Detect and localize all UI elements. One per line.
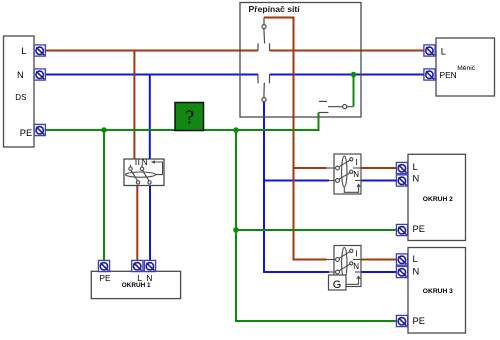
- changeover PE lever and pivot: [328, 105, 354, 109]
- svg-text:?: ?: [185, 107, 194, 129]
- okruh2 breaker pole N: [329, 170, 361, 182]
- junction dot green on N wire (PEN bond): [351, 72, 357, 78]
- terminal okruh3 L: [396, 254, 407, 265]
- box okruh2 breaker: [334, 154, 361, 194]
- wire green trunk down to okruh2/okruh3 PE: [236, 130, 397, 321]
- wire brown: okruh2 switch to L terminal: [361, 167, 397, 169]
- svg-text:N: N: [413, 267, 420, 277]
- okruh3 breaker actuator ellipse: [342, 248, 347, 279]
- wire green: PEN bond from N wire down to changeover lever: [353, 75, 355, 107]
- main switch actuator ellipse: [126, 172, 156, 177]
- okruh3 breaker G box: [329, 275, 347, 291]
- wire brown: main switch to okruh1 L terminal: [136, 186, 138, 262]
- terminal okruh2 N: [396, 175, 407, 186]
- svg-text:I: I: [355, 158, 357, 167]
- terminal okruh1 PE: [98, 260, 109, 271]
- box Menic (inverter): [436, 38, 495, 96]
- wire L brown: switch right contact to Menic L: [270, 50, 427, 52]
- box DS (source): [4, 36, 35, 147]
- terminal okruh1 L: [132, 260, 143, 271]
- svg-text:L: L: [413, 162, 418, 172]
- terminal Menic PEN: [424, 69, 435, 80]
- box Prepinac siti (network changeover switch): [240, 3, 361, 118]
- terminal okruh2 PE: [396, 224, 407, 235]
- junction dot green at okruh2 PE branch: [233, 227, 239, 233]
- switch L (top pole) contact hooks: [258, 43, 270, 50]
- junction dot green at PE line / okruh1 branch: [101, 127, 107, 133]
- terminal DS N: [34, 69, 45, 80]
- svg-text:PE: PE: [20, 128, 32, 138]
- svg-text:OKRUH 3: OKRUH 3: [423, 288, 453, 295]
- terminal okruh1 N: [144, 260, 155, 271]
- switch N (bottom pole) contact hooks: [258, 75, 270, 84]
- svg-text:PEN: PEN: [440, 70, 457, 80]
- main switch input stubs: [136, 159, 139, 165]
- okruh2 breaker pole L: [327, 158, 362, 170]
- okruh2 breaker actuator ellipse: [342, 156, 347, 187]
- svg-text:L: L: [21, 46, 26, 56]
- okruh3 breaker pole L: [327, 249, 362, 261]
- terminal Menic L: [424, 45, 435, 56]
- box okruh2: [408, 154, 466, 240]
- wire brown: okruh3 switch to L terminal: [361, 259, 397, 261]
- wire blue branch down to main switch (okruh1): [149, 75, 151, 160]
- terminal DS PE: [34, 124, 45, 135]
- terminal DS L: [34, 45, 45, 56]
- main switch trip arrow: [151, 160, 163, 174]
- svg-text:N: N: [413, 174, 420, 184]
- svg-text:PE: PE: [413, 224, 425, 234]
- box main switch okruh1: [124, 159, 164, 186]
- svg-text:N: N: [17, 70, 24, 80]
- svg-text:OKRUH 2: OKRUH 2: [423, 196, 453, 203]
- wire green branch to okruh2 PE terminal: [236, 229, 397, 231]
- svg-text:N: N: [142, 158, 148, 167]
- junction dot green at PE line / trunk: [233, 127, 239, 133]
- svg-text:N: N: [353, 262, 359, 271]
- terminal okruh3 N: [396, 266, 407, 277]
- okruh2 breaker trip arrow: [344, 184, 361, 193]
- terminal okruh3 PE: [396, 315, 407, 326]
- wire L brown: DS L to switch left contact: [46, 50, 259, 52]
- svg-text:I: I: [355, 250, 357, 259]
- svg-text:N: N: [353, 170, 359, 179]
- svg-text:L: L: [413, 254, 418, 264]
- wire blue switched: network switch common down to circuit switches: [264, 101, 329, 272]
- wire brown branch down to main switch (okruh1): [133, 51, 135, 160]
- svg-text:DS: DS: [15, 93, 26, 102]
- wire blue: main switch to okruh1 N terminal: [149, 186, 151, 262]
- wire blue: okruh3 switch to N terminal: [361, 271, 397, 273]
- wire blue: okruh2 switch to N terminal: [361, 180, 397, 182]
- wire N blue: switch right contact to Menic PEN: [270, 74, 427, 76]
- svg-text:L: L: [441, 47, 446, 57]
- terminal okruh2 L: [396, 162, 407, 173]
- svg-text:Měnič: Měnič: [457, 65, 475, 72]
- switch L lever and pivot: [262, 18, 266, 44]
- wire blue branch to okruh2 switch: [264, 180, 329, 182]
- wire brown branch to okruh2 switch: [294, 167, 327, 169]
- svg-text:G: G: [333, 279, 342, 291]
- svg-text:PE: PE: [100, 274, 111, 283]
- wire green branch down to okruh1 PE terminal: [103, 130, 105, 261]
- svg-text:Přepínač sítí: Přepínač sítí: [249, 4, 301, 14]
- wire brown switched: network switch common down to circuit switches: [264, 18, 327, 260]
- box okruh1: [91, 271, 180, 298]
- switch N lever and pivot: [262, 83, 266, 102]
- main switch pole L lever: [129, 165, 140, 184]
- wire N blue: DS N to switch left contact: [46, 74, 259, 76]
- svg-text:PE: PE: [413, 316, 425, 326]
- box okruh3: [408, 248, 466, 334]
- main switch pole N lever: [140, 165, 151, 184]
- box okruh3 breaker: [334, 246, 361, 287]
- okruh3 breaker pole N: [329, 262, 361, 274]
- box surge arrester (green ?): [175, 103, 204, 131]
- svg-text:OKRUH 1: OKRUH 1: [122, 282, 151, 289]
- changeover PE contact stubs: [319, 101, 329, 112]
- okruh3 breaker trip arrow: [344, 276, 361, 285]
- wire PE green: DS PE to network-switch PE contact: [46, 113, 319, 131]
